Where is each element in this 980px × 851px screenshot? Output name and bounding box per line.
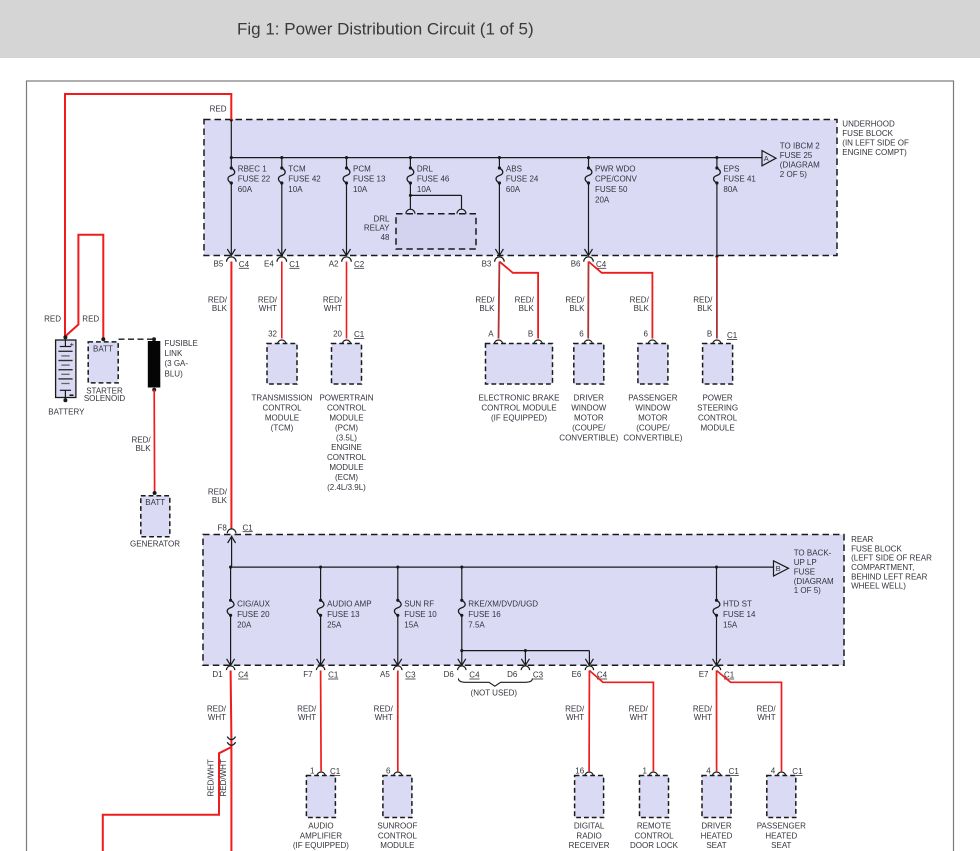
svg-text:FUSE 13: FUSE 13 — [327, 610, 360, 619]
svg-text:RED: RED — [210, 105, 227, 114]
svg-text:C1: C1 — [289, 260, 300, 269]
svg-text:FUSE 20: FUSE 20 — [237, 610, 270, 619]
svg-text:BLK: BLK — [697, 304, 713, 313]
svg-text:D1: D1 — [212, 670, 223, 679]
svg-text:PWR WDO: PWR WDO — [595, 164, 635, 173]
svg-text:CONTROL: CONTROL — [634, 831, 674, 840]
svg-text:TCM: TCM — [288, 164, 306, 173]
svg-text:60A: 60A — [238, 185, 253, 194]
svg-text:WHT: WHT — [757, 713, 775, 722]
svg-text:C1: C1 — [354, 330, 365, 339]
svg-text:15A: 15A — [404, 620, 419, 629]
svg-text:CONTROL: CONTROL — [327, 404, 367, 413]
svg-text:20: 20 — [333, 330, 342, 339]
svg-text:C3: C3 — [533, 671, 544, 680]
svg-text:C1: C1 — [330, 767, 341, 776]
svg-text:B5: B5 — [214, 259, 224, 268]
svg-text:BEHIND LEFT REAR: BEHIND LEFT REAR — [851, 572, 928, 581]
svg-text:C4: C4 — [596, 260, 607, 269]
svg-text:HEATED: HEATED — [765, 831, 797, 840]
svg-text:BLK: BLK — [212, 496, 228, 505]
svg-text:MODULE: MODULE — [329, 414, 363, 423]
svg-text:RADIO: RADIO — [576, 831, 601, 840]
svg-text:10A: 10A — [417, 185, 432, 194]
svg-text:GENERATOR: GENERATOR — [130, 539, 180, 548]
svg-text:FUSE 42: FUSE 42 — [288, 175, 321, 184]
svg-text:C4: C4 — [239, 260, 250, 269]
svg-text:CONTROL: CONTROL — [327, 453, 367, 462]
svg-text:RBEC 1: RBEC 1 — [238, 164, 267, 173]
svg-text:FUSE 50: FUSE 50 — [595, 185, 628, 194]
svg-text:FUSE BLOCK: FUSE BLOCK — [842, 129, 893, 138]
svg-text:CONTROL: CONTROL — [378, 831, 418, 840]
svg-text:BLK: BLK — [569, 304, 585, 313]
svg-text:D6: D6 — [507, 670, 518, 679]
svg-text:BLK: BLK — [212, 304, 228, 313]
svg-text:DRIVER: DRIVER — [574, 394, 604, 403]
svg-text:(NOT USED): (NOT USED) — [471, 688, 518, 697]
svg-text:FUSE 41: FUSE 41 — [723, 175, 756, 184]
svg-text:CIG/AUX: CIG/AUX — [237, 600, 271, 609]
svg-text:(DIAGRAM: (DIAGRAM — [780, 161, 820, 170]
svg-text:HEATED: HEATED — [701, 831, 733, 840]
svg-text:PASSENGER: PASSENGER — [628, 394, 677, 403]
svg-text:C1: C1 — [243, 523, 254, 532]
svg-text:PASSENGER: PASSENGER — [757, 822, 806, 831]
svg-text:4: 4 — [771, 766, 776, 775]
svg-text:C1: C1 — [328, 671, 339, 680]
svg-text:(TCM): (TCM) — [271, 423, 294, 432]
svg-text:POWER: POWER — [702, 394, 732, 403]
svg-text:D6: D6 — [444, 670, 455, 679]
svg-text:ABS: ABS — [506, 164, 522, 173]
svg-text:ENGINE COMPT): ENGINE COMPT) — [842, 148, 907, 157]
svg-text:CPE/CONV: CPE/CONV — [595, 175, 637, 184]
svg-text:RECEIVER: RECEIVER — [569, 841, 610, 850]
svg-text:MODULE: MODULE — [700, 423, 734, 432]
svg-text:A: A — [488, 330, 494, 339]
svg-text:B6: B6 — [571, 259, 581, 268]
svg-text:(LEFT SIDE OF REAR: (LEFT SIDE OF REAR — [851, 554, 932, 563]
svg-text:RED/WHT: RED/WHT — [207, 759, 216, 796]
svg-text:(DIAGRAM: (DIAGRAM — [794, 577, 834, 586]
svg-text:DIGITAL: DIGITAL — [574, 822, 605, 831]
svg-text:E4: E4 — [264, 259, 274, 268]
svg-text:FUSE 16: FUSE 16 — [468, 610, 501, 619]
svg-text:AUDIO: AUDIO — [308, 822, 333, 831]
svg-text:A5: A5 — [380, 670, 390, 679]
svg-text:CONTROL: CONTROL — [262, 404, 302, 413]
svg-text:CONVERTIBLE): CONVERTIBLE) — [623, 433, 682, 442]
svg-text:(COUPE/: (COUPE/ — [636, 423, 670, 432]
svg-text:C1: C1 — [727, 331, 738, 340]
svg-text:CONTROL: CONTROL — [698, 414, 738, 423]
svg-text:WHT: WHT — [566, 713, 584, 722]
svg-text:WHT: WHT — [375, 713, 393, 722]
svg-text:A2: A2 — [329, 259, 339, 268]
svg-text:(ECM): (ECM) — [335, 473, 358, 482]
svg-text:C4: C4 — [469, 671, 480, 680]
svg-text:ENGINE: ENGINE — [331, 443, 362, 452]
svg-text:60A: 60A — [506, 185, 521, 194]
svg-text:E7: E7 — [699, 670, 709, 679]
svg-text:UP LP: UP LP — [794, 558, 817, 567]
svg-text:BLK: BLK — [479, 304, 495, 313]
svg-text:WINDOW: WINDOW — [571, 404, 607, 413]
svg-text:FUSIBLE: FUSIBLE — [165, 339, 198, 348]
svg-text:BATT: BATT — [145, 498, 165, 507]
svg-text:B3: B3 — [482, 259, 492, 268]
svg-text:WHT: WHT — [208, 713, 226, 722]
svg-text:BLK: BLK — [634, 304, 650, 313]
svg-text:ELECTRONIC BRAKE: ELECTRONIC BRAKE — [479, 394, 560, 403]
svg-text:AMPLIFIER: AMPLIFIER — [300, 831, 342, 840]
svg-text:20A: 20A — [595, 196, 610, 205]
svg-text:(2.4L/3.9L): (2.4L/3.9L) — [327, 483, 366, 492]
svg-text:RED: RED — [82, 314, 99, 323]
svg-text:B: B — [707, 330, 712, 339]
svg-text:CONVERTIBLE): CONVERTIBLE) — [559, 433, 618, 442]
svg-text:MOTOR: MOTOR — [638, 414, 668, 423]
svg-text:1 OF 5): 1 OF 5) — [794, 586, 821, 595]
svg-text:15A: 15A — [723, 620, 738, 629]
svg-text:TO IBCM 2: TO IBCM 2 — [780, 142, 820, 151]
svg-text:6: 6 — [579, 330, 584, 339]
svg-text:F7: F7 — [303, 670, 313, 679]
svg-text:32: 32 — [268, 330, 277, 339]
svg-text:DRIVER: DRIVER — [701, 822, 731, 831]
svg-text:4: 4 — [706, 766, 711, 775]
svg-text:(IF EQUIPPED): (IF EQUIPPED) — [491, 414, 547, 423]
svg-text:FUSE 24: FUSE 24 — [506, 175, 539, 184]
svg-text:WHEEL WELL): WHEEL WELL) — [851, 582, 906, 591]
svg-text:(PCM): (PCM) — [335, 423, 358, 432]
svg-text:DRL: DRL — [373, 214, 390, 223]
svg-text:REAR: REAR — [851, 535, 873, 544]
svg-text:RED/WHT: RED/WHT — [219, 759, 228, 796]
svg-text:FUSE 14: FUSE 14 — [723, 610, 756, 619]
svg-text:10A: 10A — [288, 185, 303, 194]
svg-text:F8: F8 — [217, 523, 227, 532]
svg-text:MODULE: MODULE — [265, 414, 299, 423]
svg-text:SEAT: SEAT — [706, 841, 726, 850]
svg-text:(IF EQUIPPED): (IF EQUIPPED) — [293, 841, 349, 850]
svg-text:BLK: BLK — [135, 444, 151, 453]
svg-text:WHT: WHT — [694, 713, 712, 722]
svg-text:(IN LEFT SIDE OF: (IN LEFT SIDE OF — [842, 138, 909, 147]
svg-text:EPS: EPS — [723, 164, 739, 173]
svg-text:C2: C2 — [354, 260, 365, 269]
svg-text:DRL: DRL — [417, 164, 434, 173]
svg-text:10A: 10A — [353, 185, 368, 194]
svg-text:Fig 1: Power Distribution Circ: Fig 1: Power Distribution Circuit (1 of … — [237, 20, 534, 39]
svg-text:LINK: LINK — [165, 349, 183, 358]
svg-text:SEAT: SEAT — [771, 841, 791, 850]
svg-text:WHT: WHT — [324, 304, 342, 313]
svg-text:C1: C1 — [792, 767, 803, 776]
svg-text:MOTOR: MOTOR — [574, 414, 604, 423]
svg-text:2 OF 5): 2 OF 5) — [780, 170, 807, 179]
svg-text:6: 6 — [386, 766, 391, 775]
svg-text:RKE/XM/DVD/UGD: RKE/XM/DVD/UGD — [468, 600, 538, 609]
svg-text:TO BACK-: TO BACK- — [794, 549, 832, 558]
svg-text:FUSE BLOCK: FUSE BLOCK — [851, 544, 902, 553]
svg-text:E6: E6 — [572, 670, 582, 679]
svg-text:20A: 20A — [237, 620, 252, 629]
svg-text:FUSE: FUSE — [794, 567, 815, 576]
svg-text:C1: C1 — [729, 767, 740, 776]
svg-text:FUSE 13: FUSE 13 — [353, 175, 386, 184]
svg-text:6: 6 — [643, 330, 648, 339]
svg-text:C4: C4 — [238, 671, 249, 680]
svg-text:+: + — [70, 340, 75, 349]
svg-text:(3.5L): (3.5L) — [336, 433, 357, 442]
svg-text:FUSE 10: FUSE 10 — [404, 610, 437, 619]
svg-text:WHT: WHT — [298, 713, 316, 722]
svg-text:RED: RED — [44, 314, 61, 323]
svg-text:UNDERHOOD: UNDERHOOD — [842, 119, 895, 128]
svg-text:80A: 80A — [723, 185, 738, 194]
svg-text:WHT: WHT — [259, 304, 277, 313]
svg-text:WINDOW: WINDOW — [635, 404, 671, 413]
svg-text:MODULE: MODULE — [380, 841, 414, 850]
svg-text:DOOR LOCK: DOOR LOCK — [630, 841, 679, 850]
svg-text:FUSE 25: FUSE 25 — [780, 151, 813, 160]
svg-text:FUSE 46: FUSE 46 — [417, 175, 450, 184]
svg-text:COMPARTMENT,: COMPARTMENT, — [851, 563, 914, 572]
svg-text:HTD ST: HTD ST — [723, 600, 752, 609]
svg-text:(COUPE/: (COUPE/ — [572, 423, 606, 432]
svg-text:BLU): BLU) — [165, 369, 184, 378]
svg-text:STEERING: STEERING — [697, 404, 738, 413]
svg-text:1: 1 — [310, 766, 315, 775]
svg-text:B: B — [528, 330, 533, 339]
svg-text:MODULE: MODULE — [329, 463, 363, 472]
svg-text:25A: 25A — [327, 620, 342, 629]
svg-text:7.5A: 7.5A — [468, 620, 485, 629]
svg-text:SUNROOF: SUNROOF — [377, 822, 417, 831]
svg-text:BLK: BLK — [519, 304, 535, 313]
svg-text:1: 1 — [643, 766, 648, 775]
svg-text:B: B — [776, 564, 781, 573]
svg-text:BATT: BATT — [93, 344, 113, 353]
svg-text:POWERTRAIN: POWERTRAIN — [319, 394, 373, 403]
svg-text:SOLENOID: SOLENOID — [84, 394, 126, 403]
svg-text:SUN RF: SUN RF — [404, 600, 434, 609]
svg-text:CONTROL MODULE: CONTROL MODULE — [481, 404, 556, 413]
svg-text:BATTERY: BATTERY — [48, 408, 85, 417]
svg-text:RELAY: RELAY — [364, 224, 390, 233]
svg-text:REMOTE: REMOTE — [637, 822, 671, 831]
svg-text:AUDIO AMP: AUDIO AMP — [327, 600, 371, 609]
svg-text:48: 48 — [381, 233, 390, 242]
svg-text:TRANSMISSION: TRANSMISSION — [252, 394, 313, 403]
svg-text:C3: C3 — [405, 671, 416, 680]
svg-text:FUSE 22: FUSE 22 — [238, 175, 271, 184]
svg-text:WHT: WHT — [630, 713, 648, 722]
svg-text:PCM: PCM — [353, 164, 371, 173]
svg-text:16: 16 — [575, 766, 584, 775]
svg-text:A: A — [764, 154, 769, 163]
svg-text:(3 GA-: (3 GA- — [165, 359, 189, 368]
